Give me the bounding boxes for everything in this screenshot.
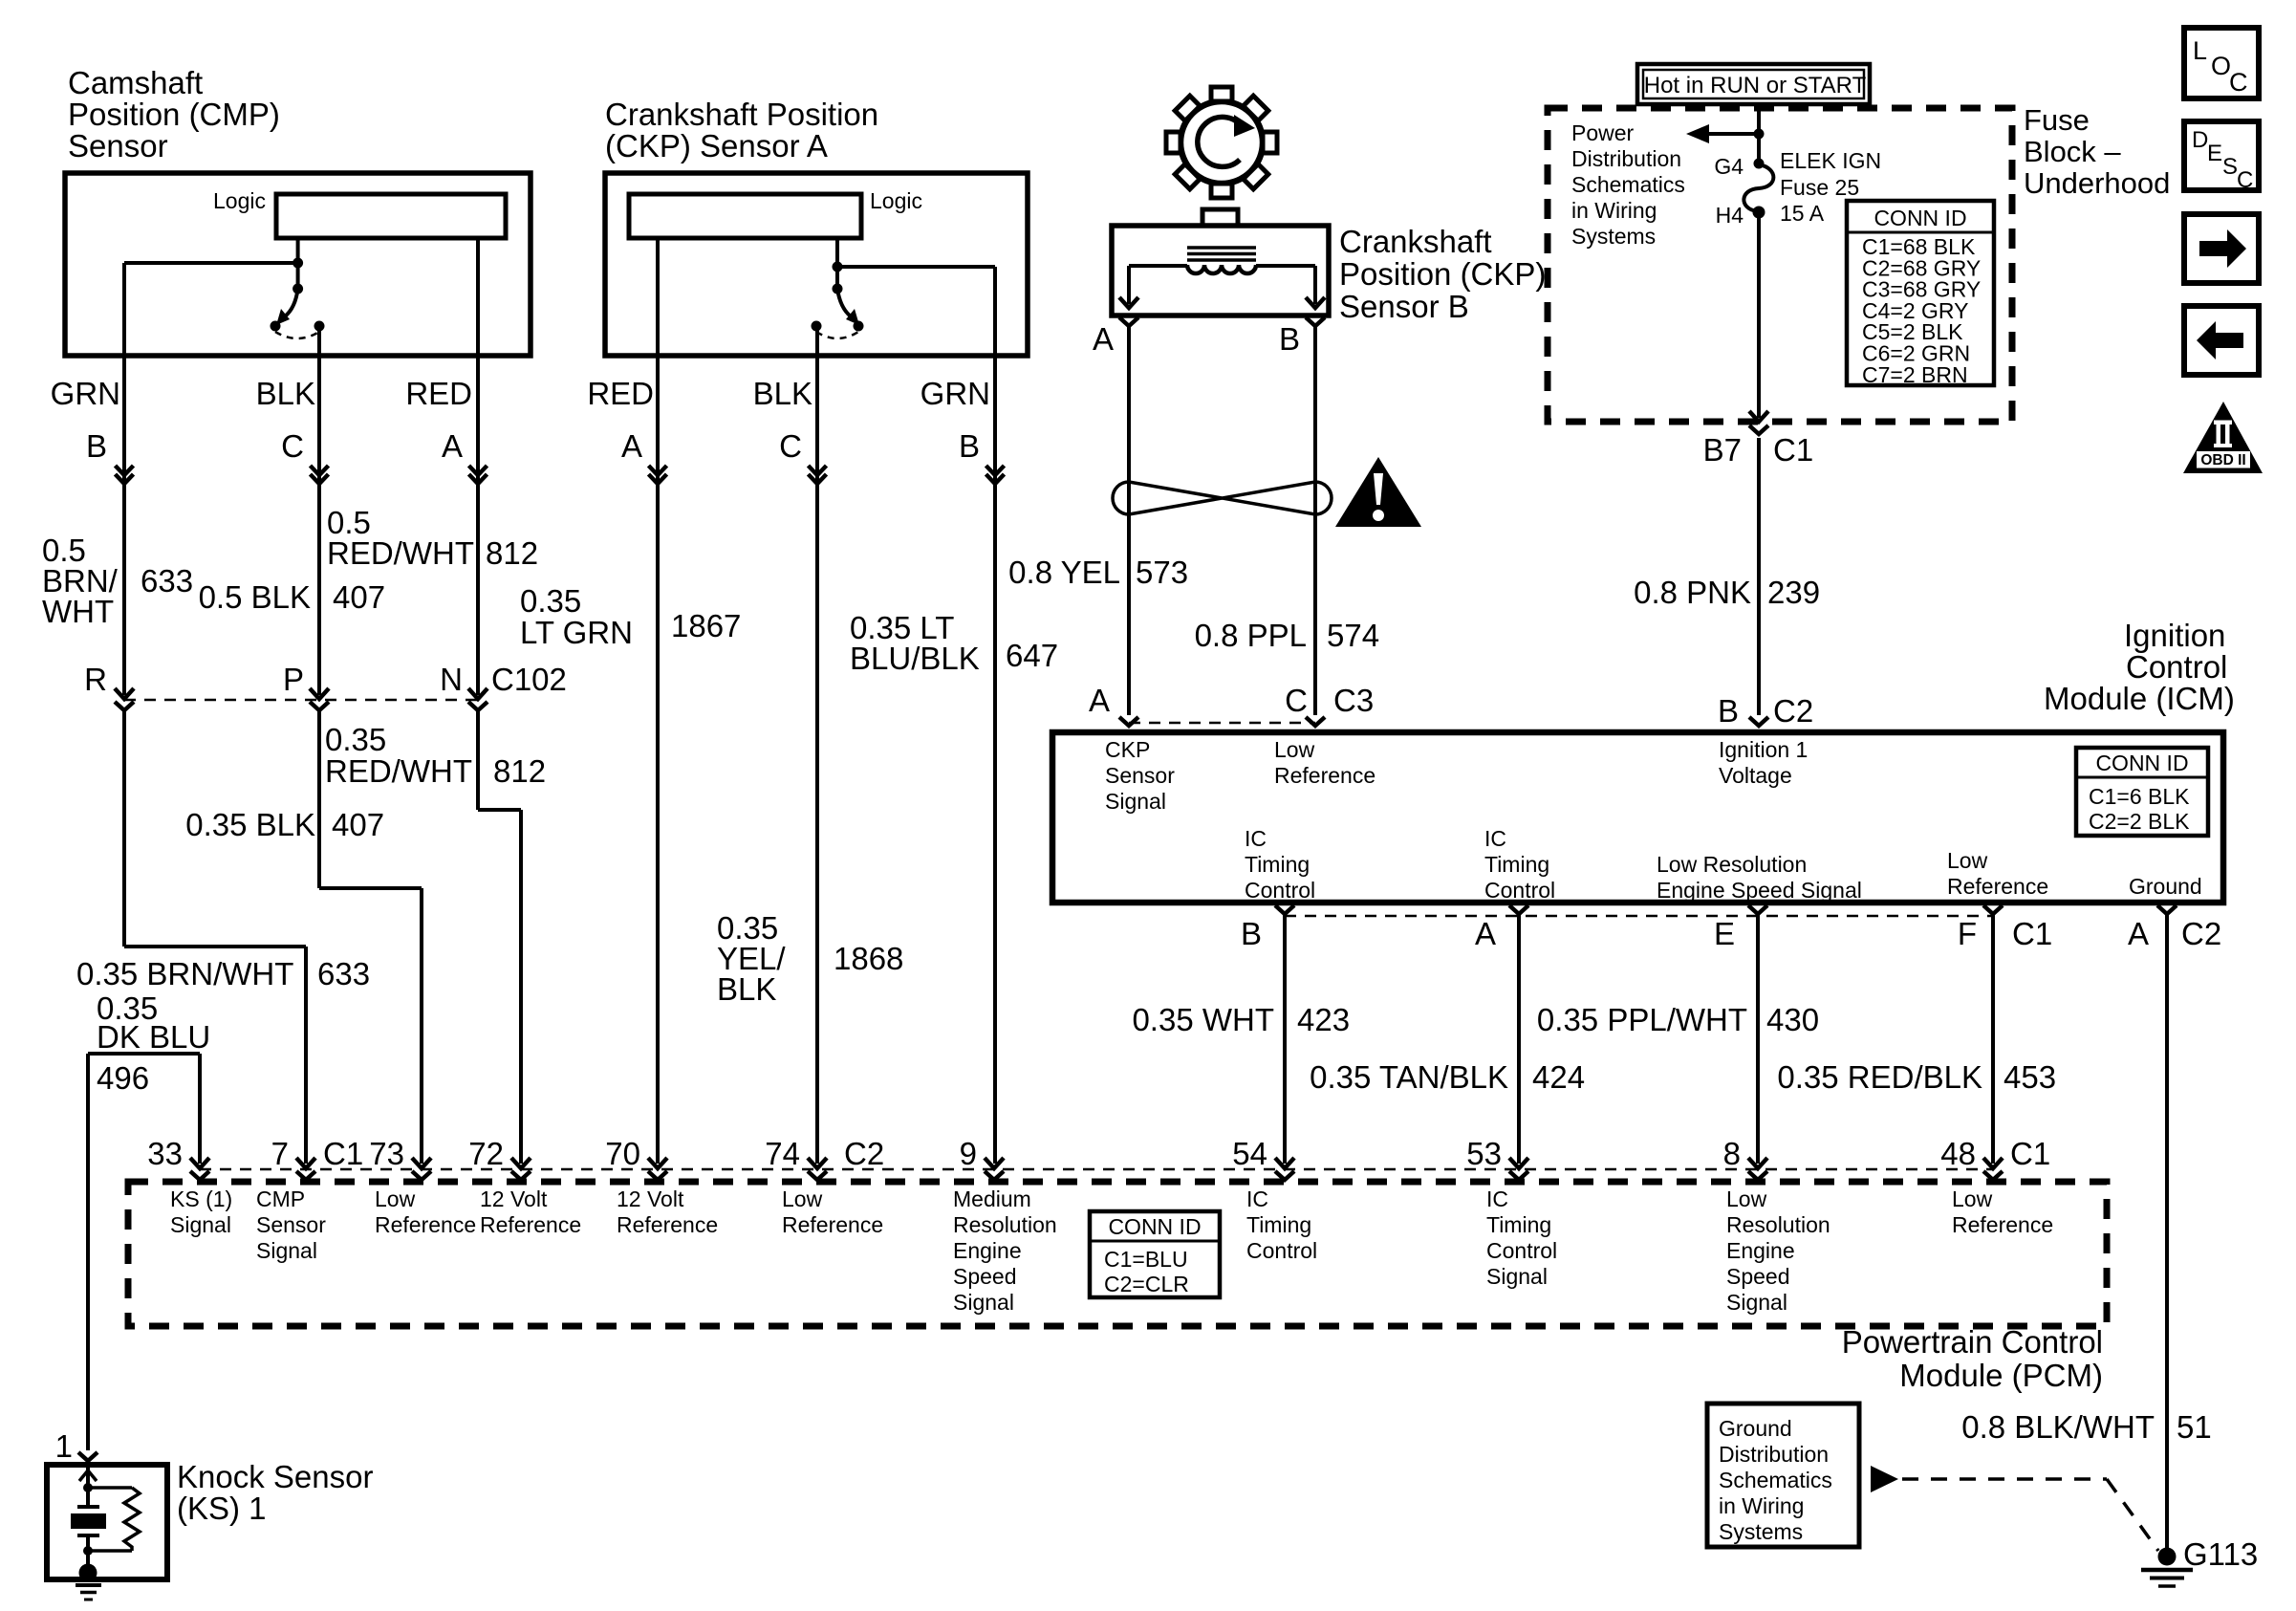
svg-text:Position (CKP): Position (CKP): [1339, 256, 1546, 292]
svg-text:Crankshaft Position: Crankshaft Position: [605, 97, 878, 132]
PCM label IC timing control: [1246, 1186, 1317, 1263]
wire RED 812 upper: [476, 356, 480, 695]
svg-text:Camshaft: Camshaft: [68, 65, 203, 100]
svg-text:74: 74: [765, 1136, 800, 1171]
svg-text:423: 423: [1297, 1002, 1350, 1037]
pin A fork CKPB: [1093, 317, 1138, 357]
svg-text:Logic: Logic: [213, 188, 266, 213]
PCM pin 7: [271, 1136, 364, 1180]
svg-text:C1: C1: [2010, 1136, 2050, 1171]
chevrons CKPA C: [809, 466, 827, 484]
svg-text:GRN: GRN: [51, 376, 120, 411]
ICM label low reference: [1274, 737, 1375, 788]
svg-text:C: C: [281, 428, 304, 464]
wire CKPB coil to pin B: [1256, 266, 1315, 304]
label BLK CMP: [256, 376, 315, 411]
svg-text:E: E: [2207, 141, 2222, 166]
svg-text:53: 53: [1466, 1136, 1502, 1171]
pin R C102: [84, 662, 107, 697]
svg-text:Distribution: Distribution: [1571, 146, 1681, 171]
svg-text:0.8 YEL: 0.8 YEL: [1008, 555, 1120, 590]
ICM title: [2044, 618, 2235, 716]
ICM label IC timing control 2: [1484, 826, 1555, 903]
svg-text:H4: H4: [1716, 203, 1744, 228]
CMP switch arm: [276, 289, 298, 325]
label 0.35 WHT 423: [1132, 1002, 1350, 1037]
svg-text:Low: Low: [1952, 1186, 1993, 1211]
svg-text:Powertrain Control: Powertrain Control: [1842, 1324, 2103, 1360]
svg-text:Timing: Timing: [1486, 1212, 1551, 1237]
svg-text:Speed: Speed: [1726, 1264, 1790, 1289]
pin C CKPA: [779, 428, 802, 464]
CMP switch dashed arc: [275, 332, 319, 338]
svg-text:Voltage: Voltage: [1719, 763, 1792, 788]
svg-text:(CKP) Sensor A: (CKP) Sensor A: [605, 128, 828, 163]
svg-text:647: 647: [1006, 638, 1058, 673]
svg-text:0.35: 0.35: [325, 722, 386, 757]
svg-text:in Wiring: in Wiring: [1719, 1493, 1804, 1518]
CKP A logic block: [629, 188, 922, 238]
ICM label low reference 2: [1947, 848, 2048, 899]
svg-text:Signal: Signal: [170, 1212, 231, 1237]
svg-text:BLK: BLK: [256, 376, 315, 411]
svg-text:C3: C3: [1333, 683, 1374, 718]
svg-text:Low: Low: [1726, 1186, 1767, 1211]
svg-text:70: 70: [605, 1136, 640, 1171]
svg-text:Schematics: Schematics: [1571, 172, 1685, 197]
PCM pin 9: [960, 1136, 1004, 1180]
svg-text:Underhood: Underhood: [2024, 166, 2170, 200]
svg-text:Engine: Engine: [953, 1238, 1022, 1263]
svg-text:S: S: [2222, 154, 2238, 180]
svg-text:C1: C1: [1773, 432, 1813, 468]
PCM label low resolution engine speed: [1726, 1186, 1830, 1315]
label 0.5 RED/WHT 812: [327, 505, 538, 571]
wire RED 1867 upper: [656, 356, 660, 1164]
arrow right icon: [2184, 214, 2259, 283]
svg-text:C: C: [779, 428, 802, 464]
svg-text:LT GRN: LT GRN: [520, 615, 633, 650]
wire BRN/WHT 633 lower: [124, 709, 306, 1164]
ground distribution box: [1707, 1404, 1859, 1547]
svg-text:A: A: [2128, 916, 2149, 951]
svg-text:Module (PCM): Module (PCM): [1899, 1358, 2103, 1393]
svg-text:Medium: Medium: [953, 1186, 1031, 1211]
svg-text:B: B: [1279, 321, 1300, 357]
svg-text:0.5 BLK: 0.5 BLK: [199, 579, 311, 615]
ICM label ground: [2129, 874, 2202, 899]
PCM pin 74 C2 label: [844, 1136, 884, 1171]
svg-text:Resolution: Resolution: [1726, 1212, 1830, 1237]
PCM label CMP sensor signal: [256, 1186, 326, 1263]
label 0.35 TAN/BLK 424: [1310, 1059, 1585, 1095]
wire to power dist arrow: [1686, 124, 1759, 143]
PCM label low reference 3: [1952, 1186, 2053, 1237]
svg-text:Reference: Reference: [617, 1212, 718, 1237]
fuse block CONN ID table: [1847, 201, 1994, 387]
knock sensor label: [177, 1459, 373, 1526]
fuse label: [1780, 148, 1881, 226]
wire CKPA logic output: [835, 238, 839, 289]
wire DK BLU 496: [88, 1054, 200, 1450]
svg-text:Module (ICM): Module (ICM): [2044, 681, 2235, 716]
svg-text:E: E: [1714, 916, 1735, 951]
ICM bottom connector dashed: [1285, 915, 1993, 918]
connector B7 C1 fork: [1703, 425, 1814, 468]
chevrons CKPA B: [986, 466, 1005, 484]
svg-text:IC: IC: [1246, 1186, 1268, 1211]
svg-text:C2=2 BLK: C2=2 BLK: [2089, 809, 2190, 834]
svg-text:Distribution: Distribution: [1719, 1442, 1829, 1467]
svg-text:Engine Speed Signal: Engine Speed Signal: [1657, 878, 1862, 903]
svg-text:453: 453: [2004, 1059, 2056, 1095]
power distribution note: [1571, 120, 1685, 249]
svg-text:A: A: [1089, 683, 1110, 718]
svg-text:424: 424: [1532, 1059, 1585, 1095]
svg-text:Fuse: Fuse: [2024, 103, 2090, 137]
CKP sensor A title: [605, 97, 878, 163]
svg-text:D: D: [2192, 127, 2208, 153]
svg-text:Low: Low: [375, 1186, 416, 1211]
svg-text:812: 812: [486, 535, 538, 571]
svg-text:0.35 BRN/WHT: 0.35 BRN/WHT: [76, 956, 293, 991]
svg-text:A: A: [442, 428, 463, 464]
svg-text:Timing: Timing: [1246, 1212, 1311, 1237]
wire ign feed upper: [1757, 104, 1761, 163]
CMP sensor title: [68, 65, 280, 163]
pin N C102: [440, 662, 463, 697]
svg-text:Reference: Reference: [480, 1212, 581, 1237]
node feed junction: [1754, 129, 1765, 140]
twisted pair symbol: [1113, 482, 1332, 514]
PCM label KS signal: [170, 1186, 232, 1237]
svg-text:R: R: [84, 662, 107, 697]
node CKPA switch pole right: [854, 321, 864, 332]
component CKP sensor A box: [605, 173, 1028, 356]
C102 P arrow: [310, 688, 329, 710]
ICM pin A fork: [1089, 683, 1138, 726]
DESC icon: [2184, 121, 2259, 193]
pin A CMP: [442, 428, 463, 464]
svg-text:0.35: 0.35: [520, 583, 581, 619]
svg-text:33: 33: [147, 1136, 183, 1171]
svg-text:B: B: [1241, 916, 1262, 951]
ICM CONN ID table: [2076, 748, 2208, 836]
ICM label CKP sensor signal: [1105, 737, 1175, 814]
wire CKPA A internal: [656, 238, 660, 356]
reluctor wheel icon: [1166, 87, 1277, 198]
svg-text:ELEK IGN: ELEK IGN: [1780, 148, 1881, 173]
ICM label low resolution engine speed: [1657, 852, 1862, 903]
svg-text:Ignition: Ignition: [2124, 618, 2225, 653]
svg-text:Reference: Reference: [1274, 763, 1375, 788]
svg-text:C2: C2: [2181, 916, 2221, 951]
label 0.35 LT BLU/BLK 647: [850, 610, 1058, 676]
svg-text:B7: B7: [1703, 432, 1742, 468]
label 0.35 PPL/WHT 430: [1537, 1002, 1819, 1037]
svg-text:Hot in RUN or START: Hot in RUN or START: [1644, 73, 1867, 98]
svg-text:Signal: Signal: [1486, 1264, 1548, 1289]
ground G113: [2141, 1536, 2258, 1586]
svg-text:15 A: 15 A: [1780, 201, 1825, 226]
svg-text:Low: Low: [1947, 848, 1988, 873]
label BLK CKPA: [753, 376, 812, 411]
CKPB pin A arrow: [1119, 297, 1138, 308]
ground dist dashed wire: [1902, 1479, 2158, 1551]
svg-text:0.8 PNK: 0.8 PNK: [1634, 575, 1751, 610]
wire 430 PPL/WHT: [1756, 914, 1760, 1164]
ICM pin C fork: [1285, 683, 1374, 726]
label 0.35 RED/WHT 812: [325, 722, 546, 789]
node CKPA junction 1: [833, 262, 843, 272]
pin B CKPA: [959, 428, 980, 464]
fuse 25 element: [1744, 164, 1773, 211]
svg-text:Signal: Signal: [1105, 789, 1166, 814]
svg-text:496: 496: [97, 1060, 149, 1096]
svg-text:54: 54: [1232, 1136, 1267, 1171]
node CMP switch pole right: [314, 321, 325, 332]
svg-text:0.8 BLK/WHT: 0.8 BLK/WHT: [1961, 1409, 2155, 1445]
wire CMP A internal: [476, 238, 480, 356]
label 0.8 PNK 239: [1634, 575, 1820, 610]
PCM pin 48: [1940, 1136, 2050, 1180]
wire CKPB coil to pin A: [1129, 266, 1187, 304]
svg-text:CKP: CKP: [1105, 737, 1150, 762]
component CMP sensor box: [65, 173, 531, 356]
svg-text:CONN ID: CONN ID: [1108, 1214, 1201, 1239]
CKPA switch dashed arc: [816, 332, 858, 338]
PCM label 12V reference 2: [617, 1186, 718, 1237]
svg-text:BLK: BLK: [717, 971, 776, 1007]
svg-text:1868: 1868: [834, 941, 903, 976]
svg-text:812: 812: [493, 753, 546, 789]
svg-text:Timing: Timing: [1484, 852, 1549, 877]
PCM label low reference 2: [782, 1186, 883, 1237]
svg-text:Ground: Ground: [2129, 874, 2202, 899]
fuse block underhood dashed box: [1548, 108, 2012, 422]
wire BLK 407 upper: [317, 326, 321, 695]
svg-text:0.8 PPL: 0.8 PPL: [1195, 618, 1307, 653]
svg-text:12 Volt: 12 Volt: [617, 1186, 684, 1211]
wire 573 YEL: [1127, 326, 1131, 715]
pin P C102: [283, 662, 304, 697]
svg-text:C1=BLU: C1=BLU: [1104, 1247, 1188, 1272]
svg-text:Control: Control: [1246, 1238, 1317, 1263]
svg-text:Schematics: Schematics: [1719, 1468, 1832, 1492]
CKPB coil: [1187, 265, 1256, 273]
svg-text:1: 1: [55, 1428, 73, 1464]
label 0.35 BLK 407: [185, 807, 384, 842]
svg-text:BLU/BLK: BLU/BLK: [850, 641, 980, 676]
svg-text:633: 633: [317, 956, 370, 991]
ICM pin B bottom fork: [1241, 905, 1294, 951]
svg-text:7: 7: [271, 1136, 289, 1171]
svg-text:DK BLU: DK BLU: [97, 1019, 210, 1055]
svg-text:Crankshaft: Crankshaft: [1339, 224, 1492, 259]
svg-text:Sensor B: Sensor B: [1339, 289, 1469, 324]
node CKPA switch pole left: [812, 321, 822, 332]
pin C CMP: [281, 428, 304, 464]
label RED CMP: [405, 376, 472, 411]
ICM pin F bottom fork: [1958, 905, 2052, 951]
svg-text:Control: Control: [1245, 878, 1315, 903]
chevrons CKPA A: [649, 466, 667, 484]
svg-text:F: F: [1958, 916, 1977, 951]
svg-text:C7=2 BRN: C7=2 BRN: [1862, 362, 1968, 387]
svg-text:Fuse 25: Fuse 25: [1780, 175, 1859, 200]
svg-text:407: 407: [332, 807, 384, 842]
svg-text:0.35 BLK: 0.35 BLK: [185, 807, 315, 842]
svg-text:633: 633: [141, 563, 193, 599]
svg-text:C1: C1: [2012, 916, 2052, 951]
svg-text:in Wiring: in Wiring: [1571, 198, 1657, 223]
svg-text:Position (CMP): Position (CMP): [68, 97, 280, 132]
PCM label IC timing control signal: [1486, 1186, 1557, 1289]
wire BLK 1868 upper: [815, 326, 819, 1164]
label 0.5 BRN/WHT 633: [42, 533, 193, 629]
svg-text:C2=CLR: C2=CLR: [1104, 1272, 1189, 1296]
svg-text:C1=6 BLK: C1=6 BLK: [2089, 784, 2190, 809]
PCM CONN ID table: [1090, 1211, 1220, 1297]
svg-text:RED: RED: [405, 376, 472, 411]
node CMP junction 2: [292, 284, 303, 294]
svg-text:0.35 PPL/WHT: 0.35 PPL/WHT: [1537, 1002, 1747, 1037]
svg-text:C2: C2: [844, 1136, 884, 1171]
CMP logic block: [213, 188, 506, 238]
svg-text:Block –: Block –: [2024, 135, 2121, 168]
knock sensor ground: [76, 1564, 101, 1600]
svg-text:Speed: Speed: [953, 1264, 1017, 1289]
pin A CKPA: [621, 428, 642, 464]
svg-text:Knock Sensor: Knock Sensor: [177, 1459, 373, 1494]
svg-text:Systems: Systems: [1719, 1519, 1803, 1544]
svg-text:574: 574: [1327, 618, 1379, 653]
svg-text:Sensor: Sensor: [256, 1212, 326, 1237]
CKPA switch arm: [837, 289, 859, 325]
PCM connector dashed line: [200, 1168, 1993, 1171]
svg-text:Power: Power: [1571, 120, 1635, 145]
svg-text:RED/WHT: RED/WHT: [325, 753, 472, 789]
PCM pin 74: [765, 1136, 827, 1180]
PCM title: [1842, 1324, 2103, 1393]
ICM top connector dashed: [1129, 722, 1315, 725]
svg-text:CONN ID: CONN ID: [1874, 206, 1966, 230]
fuse exit arrow: [1749, 411, 1768, 422]
svg-text:Low Resolution: Low Resolution: [1657, 852, 1807, 877]
svg-text:B: B: [959, 428, 980, 464]
ICM label ignition 1 voltage: [1719, 737, 1808, 788]
svg-text:C: C: [2229, 68, 2248, 97]
svg-text:239: 239: [1767, 575, 1820, 610]
PCM pin 33: [147, 1136, 209, 1180]
svg-text:Signal: Signal: [953, 1290, 1014, 1315]
svg-text:IC: IC: [1486, 1186, 1508, 1211]
svg-text:L: L: [2193, 36, 2207, 65]
svg-text:Control: Control: [2126, 649, 2227, 685]
ICM pin A bottom fork: [1475, 905, 1528, 951]
chevrons CMP C: [311, 466, 329, 484]
label GRN CKPA: [921, 376, 990, 411]
label 0.35 BRN/WHT 633: [76, 956, 370, 991]
svg-text:Signal: Signal: [256, 1238, 317, 1263]
knock sensor internals: [71, 1465, 140, 1569]
svg-text:B: B: [1718, 693, 1739, 729]
svg-text:C: C: [1285, 683, 1308, 718]
svg-text:430: 430: [1766, 1002, 1819, 1037]
pin B fork CKPB: [1279, 317, 1325, 357]
svg-text:Signal: Signal: [1726, 1290, 1787, 1315]
fuse block title: [2024, 103, 2170, 200]
svg-text:A: A: [621, 428, 642, 464]
label 0.5 BLK 407: [199, 579, 385, 615]
wire CMP B internal: [124, 263, 298, 356]
svg-text:Ground: Ground: [1719, 1416, 1792, 1441]
wire 423 WHT: [1283, 914, 1287, 1164]
PCM label medium resolution: [953, 1186, 1057, 1315]
svg-text:573: 573: [1136, 555, 1188, 590]
Hot in RUN or START box: [1637, 64, 1870, 104]
PCM pin 70: [605, 1136, 667, 1180]
arrow left icon: [2184, 306, 2259, 375]
PCM pin 73: [369, 1136, 431, 1180]
svg-text:Ignition 1: Ignition 1: [1719, 737, 1808, 762]
svg-text:Reference: Reference: [1952, 1212, 2053, 1237]
svg-text:0.35 TAN/BLK: 0.35 TAN/BLK: [1310, 1059, 1508, 1095]
ICM pin A C2 fork: [2128, 905, 2221, 951]
wire RED/WHT 812 lower: [319, 709, 422, 1164]
node H4: [1716, 203, 1765, 228]
wire 424 TAN/BLK: [1517, 914, 1521, 1164]
label RED CKPA: [587, 376, 654, 411]
svg-text:(KS) 1: (KS) 1: [177, 1491, 267, 1526]
wire GRN 633 upper: [122, 356, 126, 695]
C102 R arrow: [115, 688, 134, 710]
ICM pin B fork: [1718, 693, 1813, 729]
knock sensor pin 1 fork: [55, 1428, 97, 1464]
warning triangle: [1335, 457, 1421, 527]
svg-text:C102: C102: [491, 662, 567, 697]
svg-text:Reference: Reference: [782, 1212, 883, 1237]
PCM pin 72: [468, 1136, 531, 1180]
svg-text:Reference: Reference: [375, 1212, 476, 1237]
svg-text:C2: C2: [1773, 693, 1813, 729]
LOC icon: [2184, 28, 2259, 98]
label 0.35 DK BLU 496: [97, 991, 210, 1096]
wire CKPA B internal: [837, 267, 995, 356]
svg-text:A: A: [1475, 916, 1496, 951]
label 0.8 YEL 573: [1008, 555, 1188, 590]
svg-text:407: 407: [333, 579, 385, 615]
svg-text:Sensor: Sensor: [68, 128, 168, 163]
svg-text:Systems: Systems: [1571, 224, 1656, 249]
wire CMP logic output: [296, 238, 300, 289]
svg-text:Reference: Reference: [1947, 874, 2048, 899]
svg-text:9: 9: [960, 1136, 977, 1171]
chevrons CMP B: [116, 466, 134, 484]
PCM pin 53: [1466, 1136, 1528, 1180]
label 0.35 RED/BLK 453: [1777, 1059, 2056, 1095]
label GRN CMP: [51, 376, 120, 411]
svg-text:8: 8: [1723, 1136, 1741, 1171]
component knock sensor box: [47, 1465, 167, 1579]
node CMP junction 1: [292, 258, 303, 269]
svg-text:A: A: [1093, 321, 1114, 357]
PCM dashed box: [128, 1182, 2107, 1326]
ICM label IC timing control 1: [1245, 826, 1315, 903]
label 0.8 PPL 574: [1195, 618, 1379, 653]
svg-text:O: O: [2211, 52, 2231, 80]
svg-text:RED: RED: [587, 376, 654, 411]
